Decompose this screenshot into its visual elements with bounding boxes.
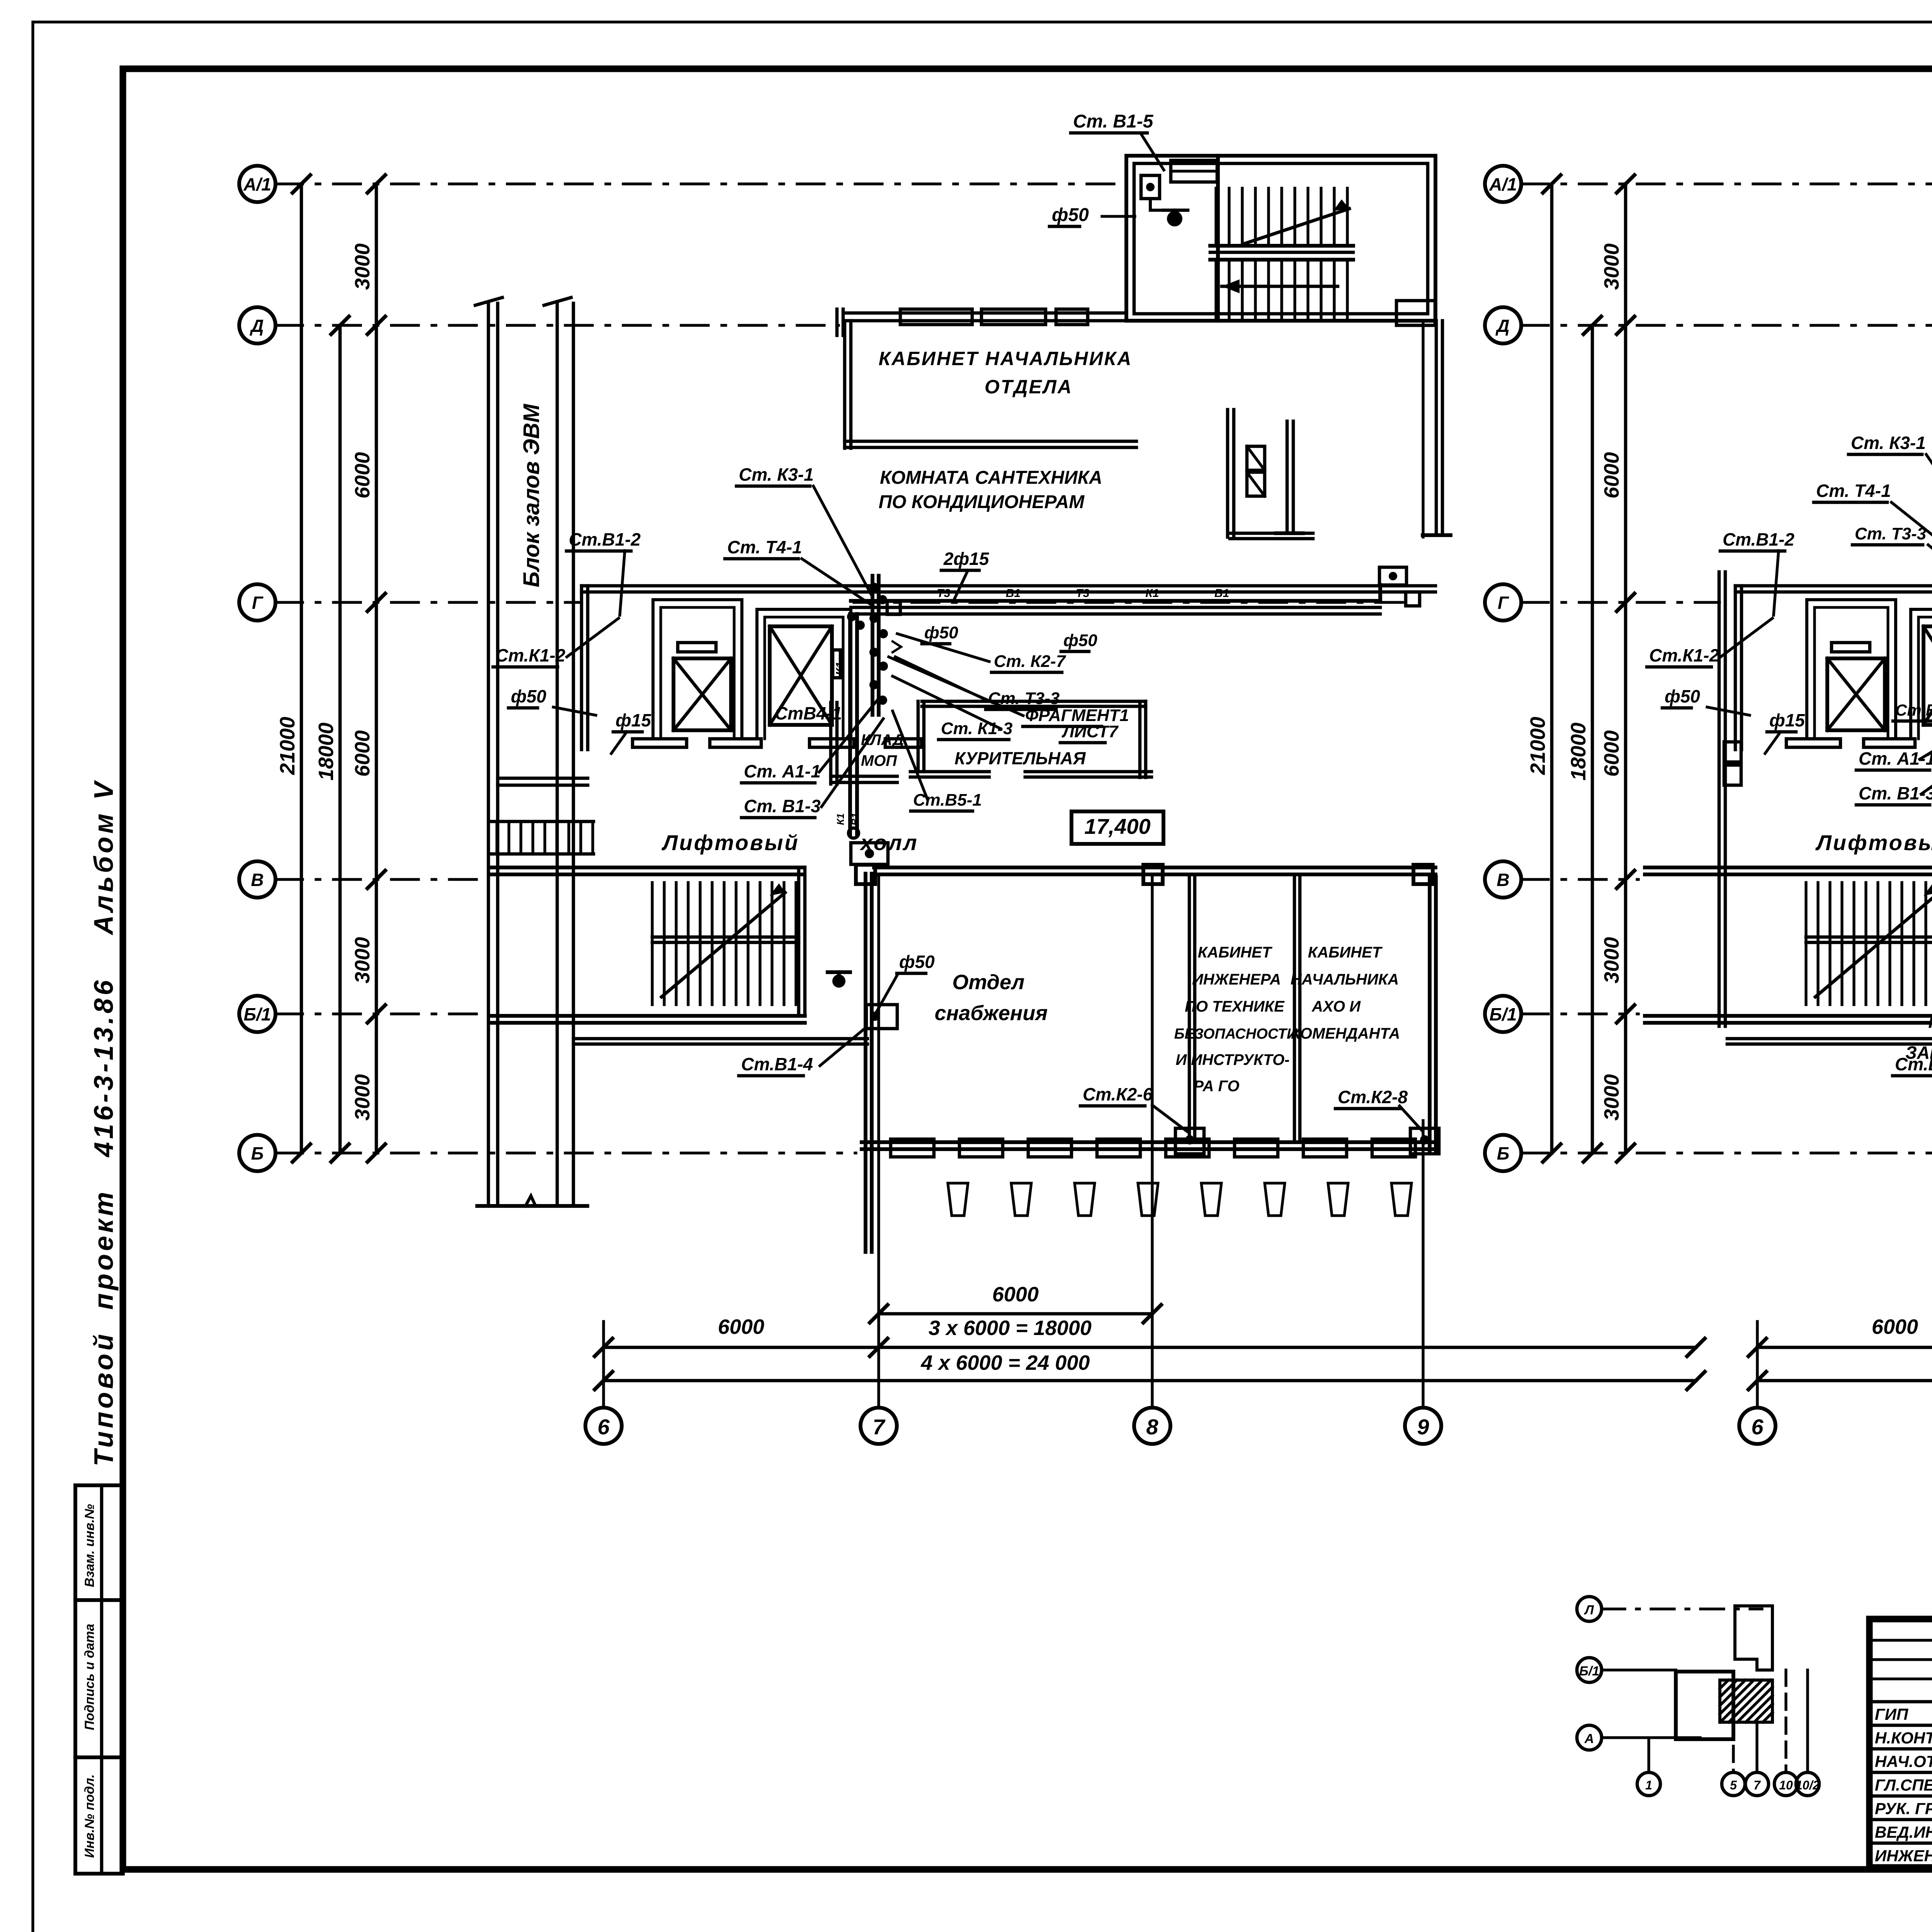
svg-text:Н.КОНТР.: Н.КОНТР. [1875, 1729, 1932, 1747]
svg-text:Ст. В1-3: Ст. В1-3 [744, 796, 821, 816]
svg-text:6000: 6000 [1600, 452, 1623, 498]
svg-text:18000: 18000 [315, 723, 338, 781]
svg-text:КАБИНЕТ: КАБИНЕТ [1308, 944, 1383, 961]
svg-text:3000: 3000 [351, 937, 374, 983]
svg-text:Л: Л [1583, 1603, 1594, 1617]
svg-text:3000: 3000 [351, 243, 374, 290]
svg-text:4 х 6000 = 24 000: 4 х 6000 = 24 000 [921, 1351, 1090, 1374]
svg-text:6000: 6000 [351, 730, 374, 777]
svg-text:ИНЖЕНЕРА: ИНЖЕНЕРА [1192, 971, 1281, 988]
svg-text:А/1: А/1 [243, 174, 271, 194]
svg-text:Типовой проект 416-3-13.86: Типовой проект 416-3-13.86 Альбом V [88, 779, 119, 1466]
svg-text:6000: 6000 [351, 452, 374, 498]
svg-text:снабжения: снабжения [935, 1002, 1048, 1025]
svg-text:КОМЕНДАНТА: КОМЕНДАНТА [1291, 1025, 1400, 1042]
svg-text:Отдел: Отдел [952, 971, 1025, 994]
svg-text:МОП: МОП [861, 752, 897, 769]
svg-text:РУК. ГР.: РУК. ГР. [1875, 1799, 1932, 1818]
svg-text:КУРИТЕЛЬНАЯ: КУРИТЕЛЬНАЯ [954, 748, 1086, 768]
svg-text:Ст.В5-1: Ст.В5-1 [913, 791, 982, 810]
svg-text:Ст. Т4-1: Ст. Т4-1 [1816, 481, 1891, 501]
svg-text:ф50: ф50 [1063, 631, 1097, 650]
svg-text:1: 1 [1645, 1778, 1652, 1792]
svg-text:Ст. Т3-3: Ст. Т3-3 [1855, 524, 1926, 543]
svg-text:5: 5 [1730, 1778, 1737, 1792]
svg-text:Д: Д [1495, 316, 1509, 336]
svg-text:ПО КОНДИЦИОНЕРАМ: ПО КОНДИЦИОНЕРАМ [879, 492, 1085, 512]
svg-text:Блок залов ЭВМ: Блок залов ЭВМ [519, 403, 544, 587]
svg-text:Взам. инв.№: Взам. инв.№ [82, 1504, 97, 1587]
svg-text:10/2: 10/2 [1796, 1778, 1820, 1792]
svg-text:А: А [1584, 1731, 1594, 1746]
svg-text:17,400: 17,400 [1084, 814, 1150, 838]
svg-text:В: В [251, 870, 264, 890]
svg-text:10: 10 [1779, 1778, 1793, 1792]
svg-text:В: В [1497, 870, 1509, 890]
svg-text:Д: Д [249, 316, 264, 336]
svg-text:6000: 6000 [1872, 1315, 1918, 1338]
svg-text:3000: 3000 [1600, 1074, 1623, 1121]
svg-text:А/1: А/1 [1489, 174, 1517, 194]
svg-text:КЛАД.: КЛАД. [861, 731, 908, 748]
svg-text:Ст. К3-1: Ст. К3-1 [739, 464, 814, 485]
svg-text:Б: Б [251, 1143, 264, 1163]
svg-text:ОТДЕЛА: ОТДЕЛА [985, 376, 1073, 398]
svg-text:Б: Б [1497, 1143, 1510, 1163]
svg-text:Ст. К2-7: Ст. К2-7 [994, 652, 1066, 671]
svg-text:Инв.№ подл.: Инв.№ подл. [82, 1774, 97, 1858]
svg-text:КОМНАТА САНТЕХНИКА: КОМНАТА САНТЕХНИКА [880, 468, 1102, 488]
svg-text:6000: 6000 [718, 1315, 764, 1338]
svg-text:Подпись и дата: Подпись и дата [82, 1624, 97, 1730]
svg-text:КАБИНЕТ: КАБИНЕТ [1198, 944, 1273, 961]
svg-text:2ф15: 2ф15 [943, 549, 990, 569]
svg-text:И ИНСТРУКТО-: И ИНСТРУКТО- [1176, 1051, 1290, 1068]
svg-text:НАЧ.ОТД.: НАЧ.ОТД. [1875, 1752, 1932, 1770]
svg-text:Г: Г [252, 593, 264, 613]
svg-text:Б/1: Б/1 [1579, 1664, 1599, 1679]
svg-text:3000: 3000 [351, 1074, 374, 1121]
svg-text:ПО ТЕХНИКЕ: ПО ТЕХНИКЕ [1185, 998, 1285, 1015]
svg-text:ИНЖЕН.: ИНЖЕН. [1875, 1847, 1932, 1865]
svg-text:ЗАМ. ДИРЕКТОРА: ЗАМ. ДИРЕКТОРА [1905, 1043, 1932, 1063]
svg-text:Ст.В5-1: Ст.В5-1 [1895, 701, 1932, 719]
svg-text:ф50: ф50 [924, 623, 958, 642]
svg-text:6000: 6000 [1600, 730, 1623, 777]
svg-text:Ст. А1-1: Ст. А1-1 [744, 761, 821, 781]
svg-text:21000: 21000 [276, 717, 299, 775]
svg-text:ВЕД.ИНЖ.: ВЕД.ИНЖ. [1875, 1823, 1932, 1841]
svg-text:ГЛ.СПЕЦ.: ГЛ.СПЕЦ. [1875, 1776, 1932, 1794]
svg-text:3000: 3000 [1600, 937, 1623, 983]
svg-text:3000: 3000 [1600, 243, 1623, 290]
svg-text:Ст. К3-1: Ст. К3-1 [1851, 433, 1926, 453]
svg-text:КАБИНЕТ: КАБИНЕТ [1928, 1012, 1932, 1032]
svg-text:Б/1: Б/1 [244, 1004, 271, 1024]
svg-text:3 х 6000 = 18000: 3 х 6000 = 18000 [929, 1316, 1092, 1340]
svg-text:КАБИНЕТ НАЧАЛЬНИКА: КАБИНЕТ НАЧАЛЬНИКА [879, 348, 1133, 369]
svg-text:БЕЗОПАСНОСТИ: БЕЗОПАСНОСТИ [1174, 1026, 1298, 1042]
svg-text:Б/1: Б/1 [1490, 1004, 1517, 1024]
svg-text:6000: 6000 [992, 1283, 1039, 1306]
svg-text:ЛИСТ7: ЛИСТ7 [1061, 722, 1119, 741]
svg-text:АХО И: АХО И [1311, 998, 1361, 1015]
svg-text:ГИП: ГИП [1875, 1705, 1908, 1723]
svg-text:21000: 21000 [1526, 717, 1549, 775]
svg-text:НАЧАЛЬНИКА: НАЧАЛЬНИКА [1291, 971, 1399, 988]
svg-text:Ст. Т4-1: Ст. Т4-1 [727, 537, 802, 557]
svg-text:Г: Г [1498, 593, 1509, 613]
svg-text:РА ГО: РА ГО [1193, 1078, 1239, 1095]
svg-text:18000: 18000 [1567, 723, 1590, 781]
svg-text:7: 7 [1753, 1778, 1761, 1792]
